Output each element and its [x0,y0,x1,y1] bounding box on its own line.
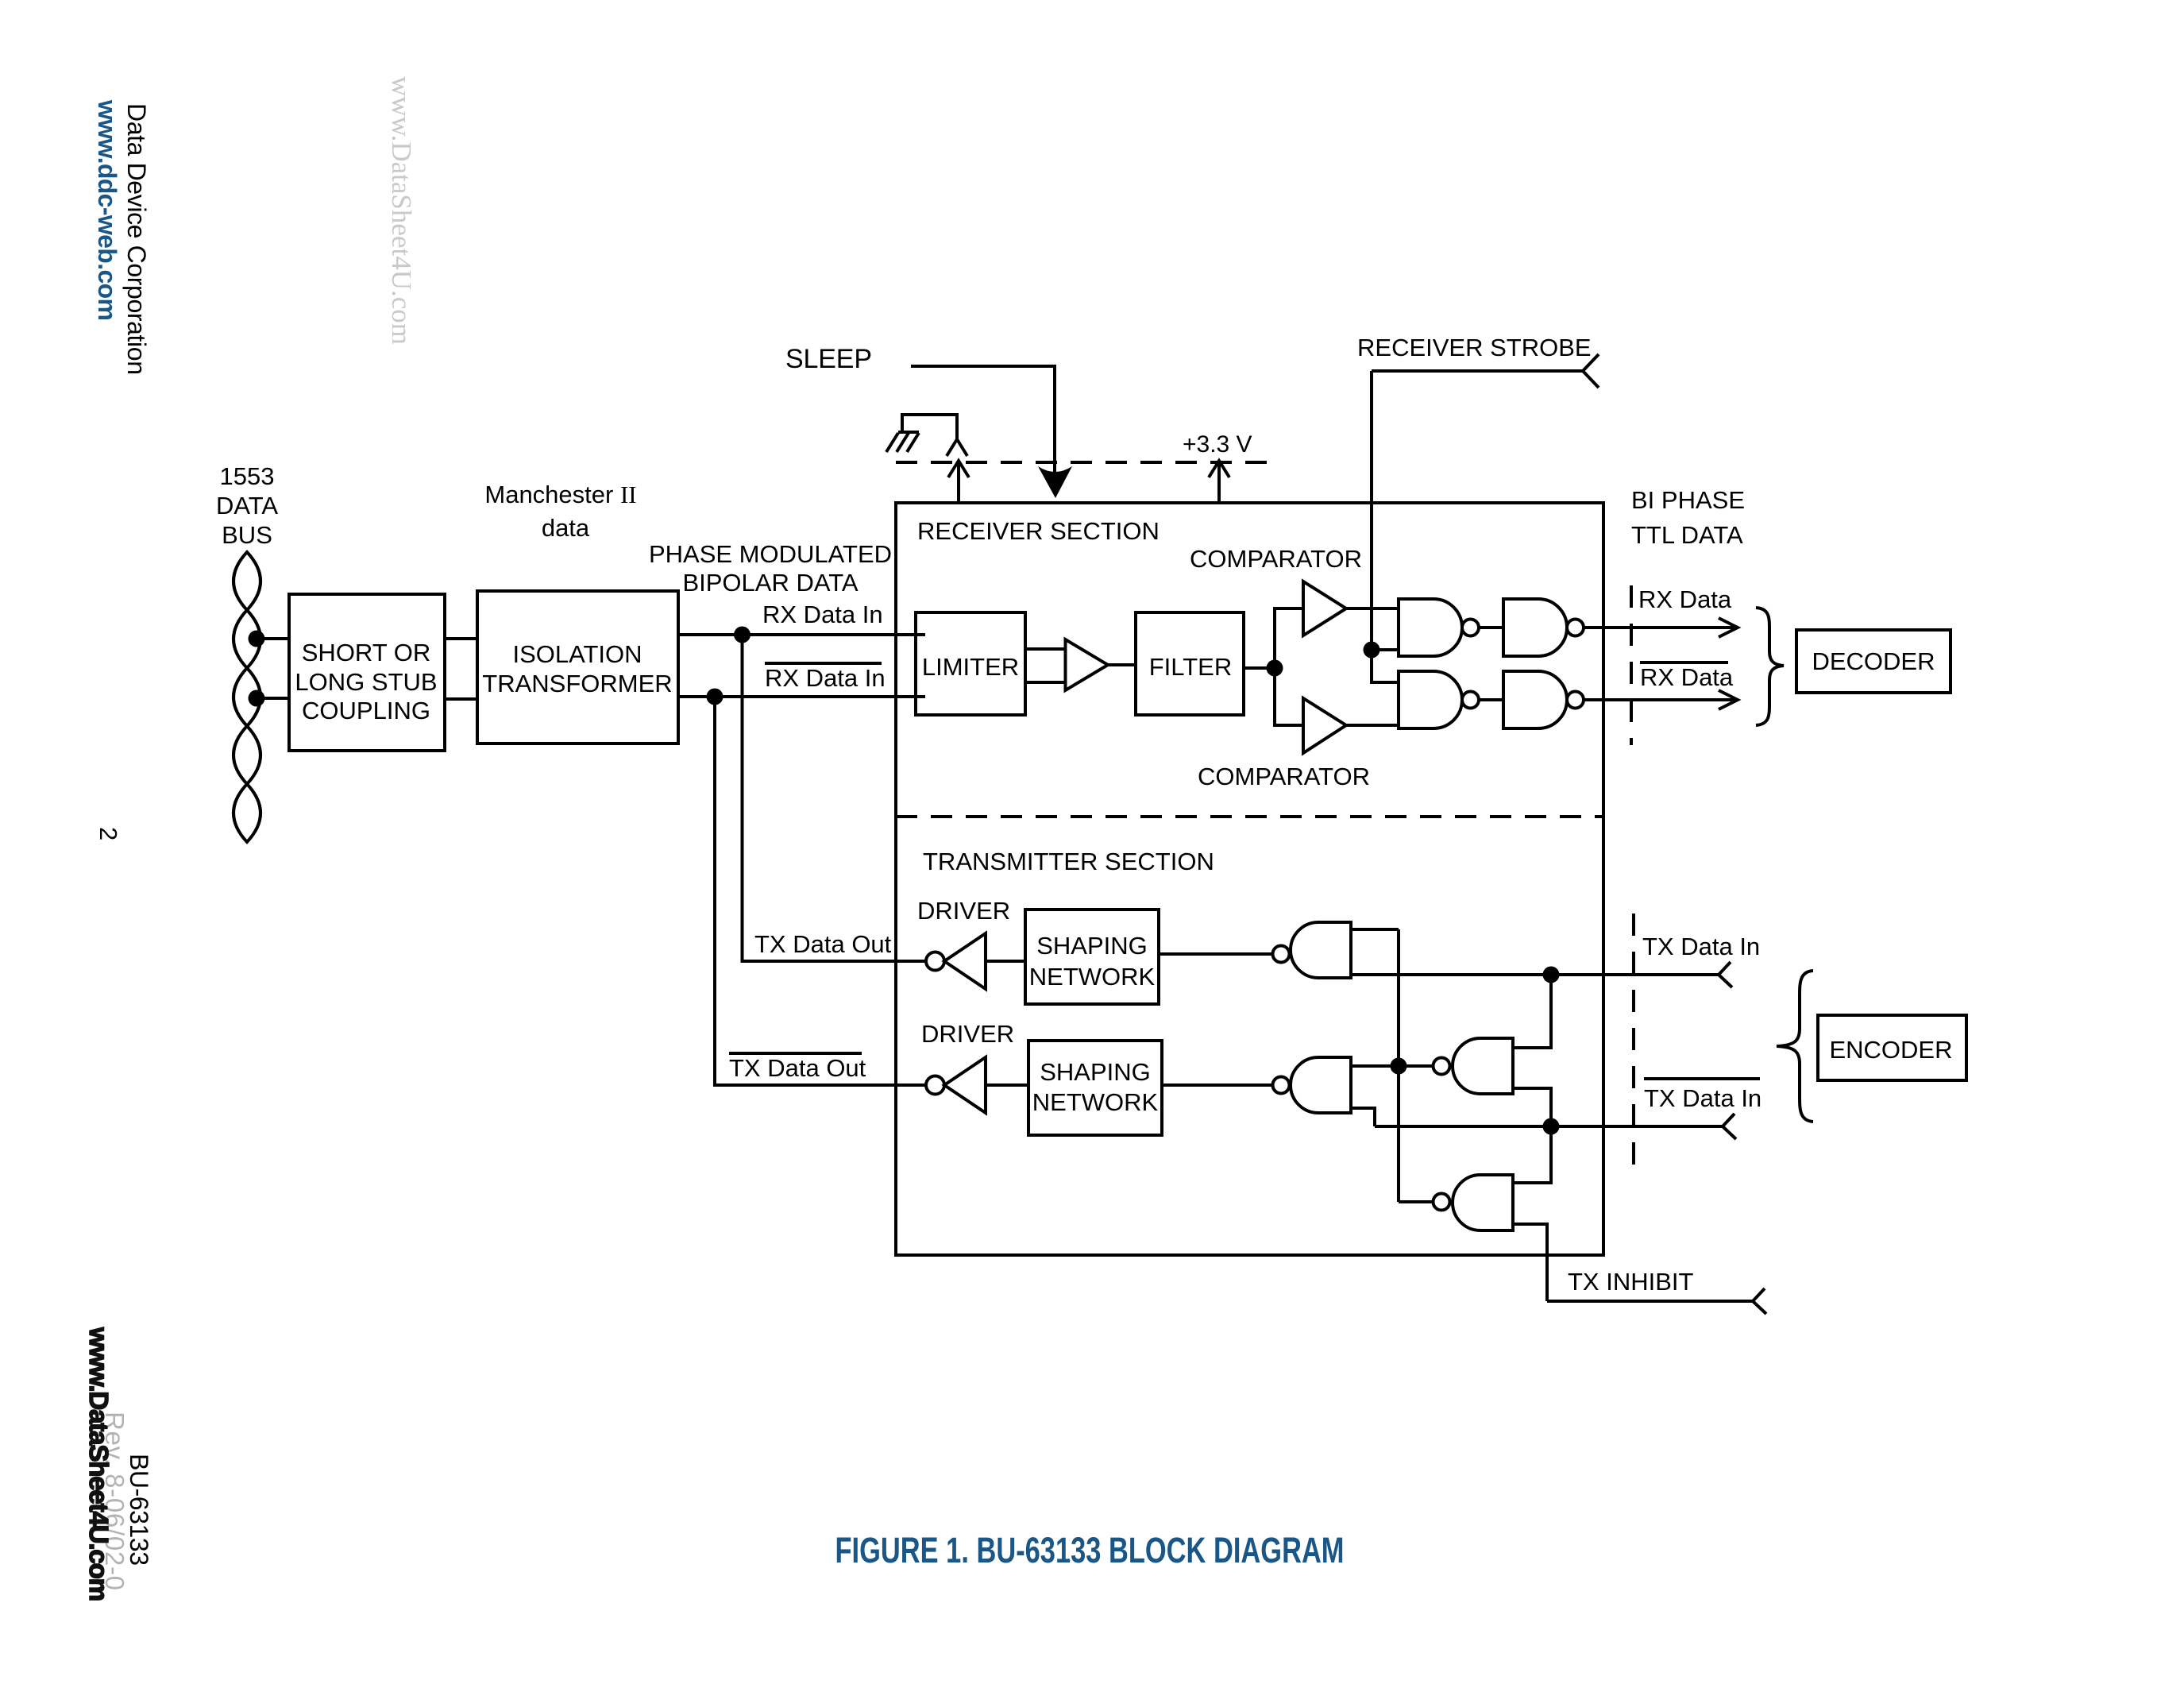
node bus tap bottom [249,690,265,707]
wire receiver strobe vertical [1372,371,1399,682]
wire TX data out vertical drop [743,635,927,961]
connector input TX Data In [1719,962,1732,987]
svg-text:NETWORK: NETWORK [1032,1088,1159,1116]
overline TX Data Out bar [729,1052,862,1055]
svg-text:RX Data In: RX Data In [765,664,886,692]
svg-text:FILTER: FILTER [1149,653,1233,681]
label shaping network 1 [1029,932,1156,991]
driver D2 inverter [926,1076,944,1095]
svg-text:COUPLING: COUPLING [302,697,430,724]
node bus tap top [249,631,265,647]
power rail dashed +3.3V [896,461,1280,464]
wire transformer to limiter RX Data In bar [678,695,925,698]
svg-text:TRANSFORMER: TRANSFORMER [482,670,672,697]
svg-text:ISOLATION: ISOLATION [512,640,642,668]
wire cross-couple vertical [1397,929,1400,1202]
svg-text:PHASE MODULATED: PHASE MODULATED [649,540,892,568]
wire ground to rail connector [902,415,957,439]
node RX data in bar junction [707,689,723,705]
connector V ground side [947,439,967,456]
label phase modulated bipolar data [649,540,892,597]
svg-text:BU-63133: BU-63133 [125,1454,153,1566]
svg-text:BIPOLAR DATA: BIPOLAR DATA [682,569,858,597]
svg-text:RECEIVER STROBE: RECEIVER STROBE [1357,334,1592,361]
connector input receiver strobe [1583,354,1599,388]
twisted pair 1553 data bus [233,552,260,842]
wire upper comparator to NAND1 [1346,607,1399,610]
nand gate N3 [1399,671,1462,728]
wire T1 top input [1351,928,1399,931]
svg-text:RX Data In: RX Data In [762,601,883,628]
connector input TX Data In bar [1723,1114,1736,1139]
svg-text:RX Data: RX Data [1640,663,1734,691]
receiver/transmitter outer box [896,503,1603,1255]
svg-text:SLEEP: SLEEP [785,344,872,374]
overline RX Data In bar [765,662,882,665]
label isolation transformer text [482,640,672,697]
svg-text:ENCODER: ENCODER [1829,1036,1952,1064]
brace to encoder [1777,971,1813,1122]
encoder box [1818,1015,1966,1080]
short/long stub coupling box [289,594,445,751]
nand gate T4 (bottom) [1433,1194,1450,1211]
wire RX Data bar output [1584,698,1738,701]
wire strobe to NAND1 lower input [1372,648,1399,651]
arrowhead sleep (filled) [1038,466,1072,498]
svg-text:www.DataSheet4U.com: www.DataSheet4U.com [386,76,417,345]
node cross-couple junction [1391,1058,1407,1075]
comparator lower triangle [1303,698,1346,753]
wire shaping2 to T2 [1162,1083,1272,1087]
svg-text:BUS: BUS [222,521,272,549]
filter box [1136,612,1244,715]
wire TX INHIBIT [1547,1300,1753,1303]
wire driver1 to shaping1 [986,960,1025,963]
wire riser to lower comparator [1275,668,1303,725]
wire T3 bottom input / T4 top input vertical [1513,1088,1551,1183]
comparator upper triangle [1303,581,1346,635]
label coupling box text [295,639,437,724]
nand gate T1 (mirrored) [1273,946,1290,963]
svg-text:FIGURE 1. BU-63133 BLOCK DIAGR: FIGURE 1. BU-63133 BLOCK DIAGRAM [835,1530,1345,1570]
connector input TX INHIBIT [1753,1288,1766,1314]
connector arrow into box left [957,461,960,503]
svg-text:DRIVER: DRIVER [921,1020,1014,1048]
brace to decoder [1756,608,1784,725]
connector arrow into box right (+3.3V) [1217,461,1221,503]
wire coupling to transformer (top) [445,637,477,640]
svg-text:DECODER: DECODER [1812,647,1935,675]
svg-text:data: data [542,514,590,542]
dashed pin boundary TX [1632,914,1635,1165]
node filter output [1267,660,1283,677]
svg-text:Manchester II: Manchester II [484,481,636,508]
node strobe junction [1364,642,1380,659]
label Manchester II data [484,481,636,542]
svg-text:LIMITER: LIMITER [922,653,1019,681]
wire T4 output to cross-couple [1399,1200,1433,1203]
svg-text:COMPARATOR: COMPARATOR [1190,545,1362,573]
wire TX Data In [1351,973,1719,976]
wire sleep [911,366,1055,477]
wire N1 to N2 [1479,626,1503,629]
nand gate T2 (mirrored) [1273,1077,1290,1094]
arrowhead RX Data bar [1719,690,1738,709]
node RX data in junction [734,627,751,643]
wire T4 bottom input to TX inhibit [1513,1224,1547,1301]
overline TX Data In bar [1644,1077,1760,1080]
label shaping network 2 [1032,1058,1159,1116]
driver D1 inverter [926,952,944,971]
decoder box [1796,630,1951,693]
svg-text:www.DataSheet4U.com: www.DataSheet4U.com [84,1327,114,1601]
wire receiver strobe horizontal [1372,369,1583,373]
overline RX Data bar out [1640,661,1728,664]
svg-text:TX Data In: TX Data In [1644,1084,1761,1112]
nand gate N2 [1503,599,1567,656]
wire T3 output to node [1399,1064,1433,1068]
wire N3 to N4 [1479,698,1503,701]
svg-text:DATA: DATA [216,492,278,520]
wire RX Data output [1584,626,1738,629]
wire limiter to buffer top [1025,647,1066,651]
node TX Data In bar junction [1543,1118,1560,1135]
wire T2 bottom input jog [1351,1108,1375,1126]
buffer amplifier triangle [1066,639,1109,690]
arrowhead RX Data [1719,618,1738,637]
section divider dashed line [896,815,1603,818]
svg-text:2: 2 [95,827,122,840]
svg-text:SHORT OR: SHORT OR [302,639,431,666]
svg-text:TTL DATA: TTL DATA [1631,521,1743,549]
wire TX data out bar vertical drop [715,697,926,1085]
label 1553 DATA BUS [216,462,278,549]
shaping network box 2 [1028,1041,1162,1135]
wire T2 top input to node [1351,1064,1399,1068]
wire TX Data In bar [1375,1125,1723,1128]
svg-text:DRIVER: DRIVER [917,897,1010,925]
wire lower comparator to NAND3 [1346,724,1399,727]
wire shaping1 to T1 [1159,952,1272,956]
shaping network box 1 [1025,910,1159,1004]
isolation transformer box [477,591,678,744]
svg-text:NETWORK: NETWORK [1029,963,1156,991]
wire buffer to filter [1108,663,1136,666]
ground (chassis) [886,415,1280,503]
wire bus to coupling box (top) [257,637,289,640]
svg-text:Data Device Corporation: Data Device Corporation [122,103,151,375]
svg-text:SHAPING: SHAPING [1040,1058,1151,1086]
svg-text:www.ddc-web.com: www.ddc-web.com [93,99,122,321]
node TX Data In junction [1543,967,1560,983]
wire riser to upper comparator [1275,608,1303,668]
wire transformer to limiter RX Data In [678,633,925,636]
nand gate N1 [1399,599,1462,656]
svg-text:BI PHASE: BI PHASE [1631,486,1745,514]
dashed pin boundary RX [1630,585,1633,745]
svg-text:TX Data In: TX Data In [1642,933,1760,960]
nand gate T3 (middle) [1433,1058,1450,1075]
wire bus to coupling box (bottom) [257,697,289,700]
wire coupling to transformer (bottom) [445,697,477,701]
wire driver2 to shaping2 [986,1083,1028,1087]
limiter box U1 [916,612,1025,715]
svg-text:TX INHIBIT: TX INHIBIT [1568,1268,1694,1296]
svg-text:TRANSMITTER SECTION: TRANSMITTER SECTION [923,848,1214,875]
svg-text:LONG STUB: LONG STUB [295,668,437,696]
wire limiter to buffer bottom [1025,681,1066,684]
wire filter output [1244,666,1275,670]
svg-text:RECEIVER SECTION: RECEIVER SECTION [917,517,1160,545]
svg-text:TX Data Out: TX Data Out [754,930,892,958]
svg-text:+3.3 V: +3.3 V [1183,431,1252,458]
nand gate N4 [1503,671,1567,728]
svg-text:TX Data Out: TX Data Out [729,1054,866,1082]
wire T3 top input [1513,975,1551,1048]
svg-text:RX Data: RX Data [1638,585,1732,613]
svg-text:COMPARATOR: COMPARATOR [1198,763,1370,790]
svg-text:1553: 1553 [220,462,275,490]
svg-text:SHAPING: SHAPING [1036,932,1148,960]
